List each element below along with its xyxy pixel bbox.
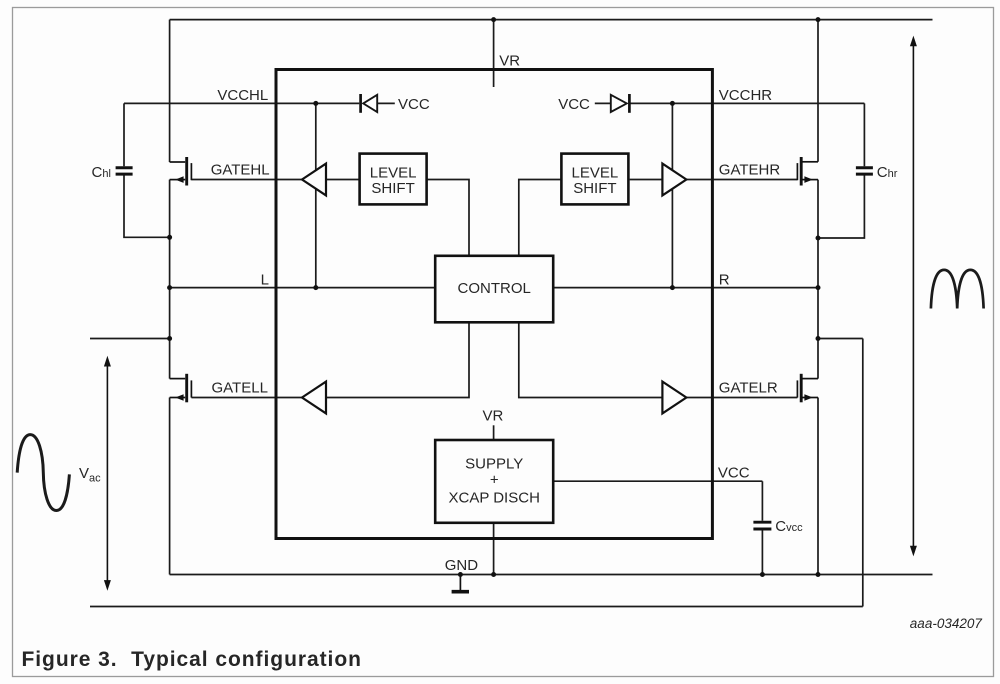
transistor QHR (high-side right MOSFET) [797,157,818,186]
wire: control to buffer LR [519,322,663,397]
svg-text:VCC: VCC [718,465,750,482]
right-side measurement arrow [910,36,917,557]
junction ground symbol tap [458,572,463,577]
junction node L Vac tap [167,336,172,341]
load symbol M [931,270,984,309]
gate buffer HR [662,164,686,196]
capacitor Cvcc [753,522,771,529]
wire: left mid vertical (L node) [169,180,171,379]
junction GND pin on ground rail [491,572,496,577]
junction node R buffer supply [670,285,675,290]
svg-text:VCCHR: VCCHR [719,87,773,104]
junction right rail top [816,17,821,22]
svg-text:SHIFT: SHIFT [371,180,414,197]
wire: GATELR net [686,397,797,399]
AC source sine symbol [17,435,69,511]
svg-text:GATELL: GATELL [212,380,268,397]
svg-text:VR: VR [483,408,504,425]
svg-text:VCC: VCC [558,96,590,113]
wire: QLL source to ground rail [169,398,171,575]
wire: VCCHL net [124,102,395,104]
svg-text:CONTROL: CONTROL [458,280,531,297]
wire: Vac top stub to node L [90,338,170,340]
junction VCCHR node [670,101,675,106]
wire: VR top pin stub [493,20,495,87]
level shift box U1A [360,154,427,205]
wire: control to buffer LL [326,322,469,397]
wire: top VR rail [170,19,933,21]
svg-text:aaa-034207: aaa-034207 [910,616,983,631]
wire: GATELL net [191,397,302,399]
transistor QHL (high-side left MOSFET) [170,157,192,186]
svg-text:XCAP DISCH: XCAP DISCH [448,489,539,506]
diode D2 (right bootstrap) [611,94,630,113]
wire: Chl capacitor leads [124,103,170,237]
wire: R net [553,287,818,289]
junction Chr bottom on node R [816,236,821,241]
junction VR top rail [491,17,496,22]
junction node L left [167,285,172,290]
gate buffer LL [302,382,326,414]
junction VCCHL node [313,101,318,106]
supply xcap discharge box [435,440,553,523]
wire: right buffer supply vertical [671,103,673,287]
junction node R return tap [816,336,821,341]
gate buffer HL [302,164,326,196]
wire: right mid vertical (R node) [817,180,819,379]
svg-text:GND: GND [445,557,479,574]
capacitor Chr [856,168,873,174]
Vac measurement arrow [104,356,111,591]
wire: VCC net [553,480,762,482]
junction Chl bottom on node L [167,235,172,240]
wire: Cvcc capacitor leads [761,481,763,574]
junction node L buffer supply [313,285,318,290]
svg-text:SUPPLY: SUPPLY [465,455,523,472]
ground symbol [452,575,469,592]
svg-text:R: R [719,272,730,289]
svg-text:GATELR: GATELR [719,380,778,397]
wire: L net [170,287,436,289]
wire: Chr capacitor leads [818,103,864,238]
transistor QLR (low-side right MOSFET) [797,374,818,403]
wire: GATEHL net [191,179,302,181]
wire: level shift HR input/output [519,180,663,256]
junction node R right [816,285,821,290]
ic U1 outline [276,70,712,539]
junction QLR source on ground rail [816,572,821,577]
svg-text:+: + [490,472,499,489]
svg-text:VCCHL: VCCHL [217,87,268,104]
wire: GND pin stub [493,523,495,575]
wire: node R to right return [818,339,863,607]
svg-text:Figure 3. Typical configurati: Figure 3. Typical configuration [22,648,362,671]
junction Cvcc on ground rail [760,572,765,577]
control box [435,256,553,322]
wire: VCCHR net [595,102,865,104]
wire: GATEHR net [686,179,797,181]
svg-text:VR: VR [499,53,520,70]
wire: QLR source to ground rail [817,398,819,575]
wire: left vertical from top rail to QHL drain [169,20,171,162]
wire: left buffer supply vertical [315,103,317,287]
diode D1 (left bootstrap) [361,94,378,113]
transistor QLL (low-side left MOSFET) [170,374,192,403]
wire: right vertical from top rail to QHR drain [817,20,819,162]
svg-text:GATEHL: GATEHL [211,162,270,179]
wire: Vac bottom return [90,606,863,608]
gate buffer LR [662,382,686,414]
svg-text:L: L [261,272,269,289]
wire: ground rail [170,574,933,576]
svg-text:SHIFT: SHIFT [573,180,616,197]
level shift box U1B [561,154,628,205]
wire: level shift HL input/output [326,180,469,256]
svg-text:GATEHR: GATEHR [719,162,781,179]
capacitor Chl [116,168,133,174]
wire: VR bottom pin stub [493,425,495,440]
svg-text:VCC: VCC [398,96,430,113]
